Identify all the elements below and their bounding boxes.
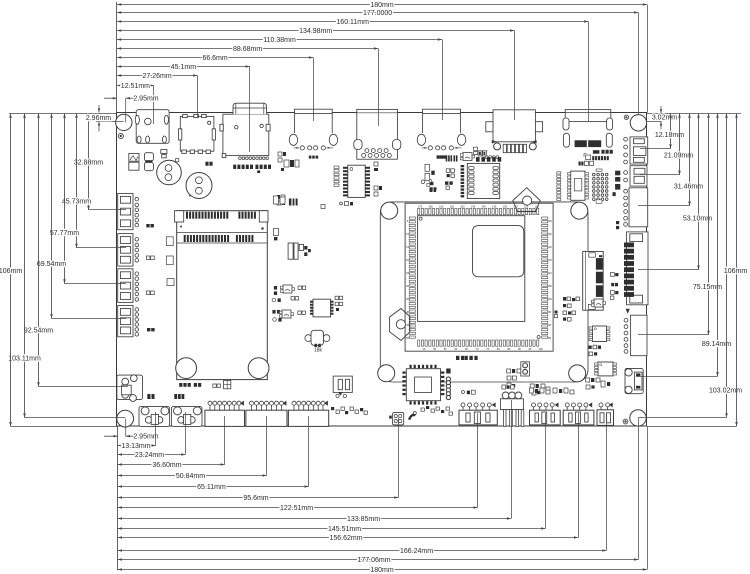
svg-text:57.77mm: 57.77mm [50,230,79,237]
connector J28 header [530,410,561,425]
svg-text:120: 120 [547,245,552,249]
dimension right 75.15mm [708,114,710,335]
svg-text:103.11mm: 103.11mm [8,355,41,362]
svg-text:105: 105 [547,284,552,288]
heatsink hole top-right [571,202,588,219]
heatsink hole top-left [381,202,398,219]
svg-text:115: 115 [548,258,553,262]
oscillator Y1 [305,335,312,342]
dimension bottom 177.06mm [118,559,639,561]
svg-text:170: 170 [418,204,423,208]
dimension extension left top [9,113,117,115]
pads near QFP corner [555,311,558,314]
dimension top 180mm [117,4,647,6]
dimension right 53.10mm [698,114,700,270]
dimension right 12.18mm [670,114,672,149]
svg-text:13.13mm: 13.13mm [121,443,150,450]
cluster near N [421,180,425,184]
connector J4 USB [295,109,333,113]
cluster SOT L [463,153,472,161]
icon phone [408,413,416,420]
svg-text:122.51mm: 122.51mm [280,505,313,512]
svg-text:2.95mm: 2.95mm [133,434,158,441]
dimension right 89.14mm [717,114,719,377]
dimension top 66.6mm [117,57,313,59]
cluster transistors E [274,286,277,290]
dimension top 134.98mm [117,30,514,32]
connector J15 left [118,193,133,229]
pin column left of U8 [461,165,465,167]
dimension bottom 156.62mm [118,537,579,539]
pad row under J8 [593,150,600,154]
svg-text:110.38mm: 110.38mm [263,37,296,44]
pads left of J11 [616,221,619,224]
connector J29 header [563,410,594,425]
cluster parts U [563,297,566,301]
cluster parts I [179,383,182,387]
black col right [615,171,620,176]
dimension top 88.68mm [117,48,378,50]
connector J22 bottom box [205,410,245,426]
dimension bottom 122.51mm [118,507,478,509]
dimension extension left vertical [116,2,118,113]
mounting hole top-left [116,114,132,130]
dimension right 103.02mm [726,114,728,418]
dimension left 106mm [10,114,12,427]
mounting hole bottom-right [630,410,646,426]
svg-text:3.02mm: 3.02mm [652,115,677,122]
dimension extension bottom-left vertical [117,426,119,570]
dimension top 12.51mm [117,85,154,87]
connector J25 small [393,413,404,425]
dimension left 2.96mm [98,105,100,113]
connector J13 right [631,315,647,356]
svg-text:100: 100 [538,347,543,351]
cluster parts B [277,195,280,199]
dimension left 103.11mm [24,114,26,418]
pads above J20 [147,394,150,399]
IC U8 [467,163,499,198]
pads cluster bottom [331,407,334,410]
cluster parts C small [273,229,278,236]
pad row2 under J8 [586,155,591,160]
cluster parts Z [502,385,506,389]
svg-text:2.96mm: 2.96mm [86,115,111,122]
svg-text:23.24mm: 23.24mm [135,452,164,459]
pads black pair [205,162,208,166]
capacitor C2 [186,173,212,199]
component group C-L [145,153,154,161]
IC U6 [593,326,607,342]
IC U7 [598,362,613,376]
connector J16 left [118,234,133,267]
connector J24 bottom box [288,410,328,426]
dimension bottom 95.6mm [118,497,399,499]
dimension bottom 166.24mm [118,550,607,552]
dimension bottom 36.60mm [118,464,225,466]
connector J2 [180,116,214,151]
cluster parts A [278,152,282,156]
heatsink hole bottom-right [569,365,586,382]
fiducial top-right [624,115,628,119]
dimension top 2.95mm [104,97,117,99]
svg-text:110: 110 [548,271,553,275]
transistor under LVDS [594,299,603,307]
svg-text:133.85mm: 133.85mm [347,516,380,523]
connector J26 header [459,410,497,425]
component X1 [224,380,231,388]
svg-text:180mm: 180mm [370,567,394,574]
pads below grid [596,200,602,204]
cluster K stripes [446,155,448,161]
svg-text:100: 100 [547,297,552,301]
mounting hole top-right [630,115,646,131]
connector J31 LVDS [583,252,604,311]
svg-text:92.54mm: 92.54mm [24,328,53,335]
svg-text:21.09mm: 21.09mm [664,152,693,159]
pads below U6 [589,346,592,349]
dimension right 31.46mm [689,114,691,206]
component group RT1 [129,153,139,161]
dimension bottom 65.11mm [118,486,309,488]
svg-text:140: 140 [481,204,486,208]
svg-text:88.68mm: 88.68mm [233,46,262,53]
svg-text:45.73mm: 45.73mm [62,199,91,206]
svg-text:2.95mm: 2.95mm [133,96,158,103]
pads left of J7 [482,151,487,156]
cluster parts Y [456,356,459,360]
connector J17 left [118,269,133,303]
cluster K row [437,155,439,158]
fiducial bottom-right [623,419,628,424]
dimension bottom 180mm [118,569,648,571]
pin column left of U4 [557,172,561,174]
dimension top 27.26mm [117,75,197,77]
svg-text:36.60mm: 36.60mm [152,462,181,469]
svg-text:177.06mm: 177.06mm [357,557,390,564]
tab plate top-right [513,188,540,212]
svg-text:130: 130 [547,219,552,223]
cluster parts X [530,384,534,388]
IC U2 QFP [405,203,553,351]
black dots N [430,187,433,190]
heatsink bracket outline [380,202,588,382]
black pads row mid [289,199,298,206]
pads under J3 [239,157,242,160]
dimension extension right top [647,113,741,115]
cluster parts W [507,369,511,373]
svg-text:130: 130 [503,204,508,208]
svg-text:12.51mm: 12.51mm [121,83,150,90]
connector J18 left [118,306,133,337]
board outline [117,113,647,427]
svg-text:66.6mm: 66.6mm [202,55,227,62]
svg-text:65.11mm: 65.11mm [197,484,226,491]
pad grid right of U4 [593,173,596,176]
pin ring column right of U5 [446,369,450,374]
svg-text:160.11mm: 160.11mm [336,19,369,26]
IC U4 [571,171,585,200]
cluster parts H [146,224,149,227]
connector J21 jack [171,407,202,427]
fiducial top-left [118,133,123,138]
capacitor C1 [157,160,182,185]
ring pair pads [521,362,530,376]
connector J9 right [630,137,648,164]
dimension top 110.38mm [117,39,442,41]
dimension left 57.77mm [64,114,66,284]
cluster parts AB [467,391,470,395]
dimension left 69.54mm [51,114,53,319]
dimension top 177.0000 [117,12,638,14]
svg-text:103.02mm: 103.02mm [709,388,742,395]
dimension bottom 23.24mm [118,454,186,456]
dimension left 45.73mm [76,114,78,248]
svg-text:50.84mm: 50.84mm [176,473,205,480]
connector J6 USB [423,109,461,113]
dimension right 106mm [736,114,738,427]
IC U9 [313,299,331,317]
connector J14 right [625,368,643,393]
svg-text:125: 125 [547,232,552,236]
svg-text:145.51mm: 145.51mm [328,526,361,533]
svg-text:145: 145 [471,204,476,208]
dimension left 32.88mm [88,114,90,210]
IC U5 QFN [406,369,440,401]
heatsink hole bottom-left [378,365,395,382]
connector J7 HDMI [493,110,535,142]
connector J10 right [630,166,647,186]
dimension bottom 133.85mm [118,518,512,520]
svg-text:160: 160 [439,204,444,208]
connector J8 [565,110,611,122]
svg-text:69.54mm: 69.54mm [37,261,66,268]
connector J30 small 2slot [597,410,614,426]
dimension top 45.1mm [117,66,250,68]
svg-text:32.88mm: 32.88mm [74,159,103,166]
cluster K leftcol [425,164,429,171]
svg-text:106mm: 106mm [0,268,22,275]
cluster parts V [586,378,590,382]
pads cluster bottom 2 [421,408,424,411]
dimension bottom 13.13mm [118,445,156,447]
pads right of J31 [611,273,615,277]
component small rects [161,150,167,154]
pads near hole QFP [340,202,343,205]
svg-text:156.62mm: 156.62mm [329,535,362,542]
connector J27 tall [500,399,523,410]
cluster parts AA [530,388,534,393]
svg-text:45.1mm: 45.1mm [171,64,196,71]
svg-text:166.24mm: 166.24mm [400,548,433,555]
connector J20 jack [139,407,170,427]
connector J12 right edge [627,232,649,305]
svg-text:150: 150 [460,204,465,208]
pads col left of U3 [334,166,339,168]
connector J19 power bottom-left [117,375,143,400]
svg-text:+: + [189,194,192,200]
dimension bottom 2.95mm [104,435,118,437]
dimension right 3.02mm [660,106,662,113]
cluster parts J [374,162,378,166]
tab plate bottom-left [390,309,410,341]
dimension bottom 145.51mm [118,528,546,530]
svg-text:95.6mm: 95.6mm [243,495,268,502]
connector J3 audio jack [223,114,269,155]
svg-text:180mm: 180mm [370,2,394,9]
connector J5 USB [357,109,398,159]
pad grid F [335,296,338,299]
dimension left 92.54mm [38,114,40,387]
module U1 mini-PCIe [177,211,268,380]
cluster K squares [446,169,450,173]
svg-text:134.98mm: 134.98mm [299,28,332,35]
svg-text:53.10mm: 53.10mm [683,215,712,222]
svg-text:18k: 18k [314,348,323,354]
connector J11 right [629,188,648,227]
pads above J21 [174,394,177,399]
cluster parts G [166,237,173,246]
svg-text:135: 135 [492,204,497,208]
mounting hole bottom-left [117,410,134,427]
dimension top 160.11mm [117,21,588,23]
svg-text:165: 165 [428,204,433,208]
svg-text:27.26mm: 27.26mm [143,73,172,80]
IC U3 [348,165,365,197]
pads small under J8 [579,162,581,166]
connector J23 bottom box [246,410,287,426]
pad near C1 [176,159,179,162]
dimension right 21.09mm [679,114,681,176]
svg-text:177.0000: 177.0000 [363,10,392,17]
svg-text:106mm: 106mm [724,268,748,275]
pads above U8 [476,157,480,162]
connector J1 power [136,110,169,144]
svg-text:155: 155 [450,204,455,208]
connector F1 [333,376,352,392]
dimension bottom 50.84mm [118,475,267,477]
pads above grid [596,169,602,171]
cluster bars D [288,243,293,259]
